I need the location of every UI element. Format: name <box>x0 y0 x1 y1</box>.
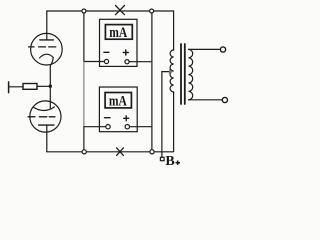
svg-text:B: B <box>165 154 174 169</box>
svg-text:mA: mA <box>109 94 127 110</box>
svg-text:mA: mA <box>109 25 127 41</box>
